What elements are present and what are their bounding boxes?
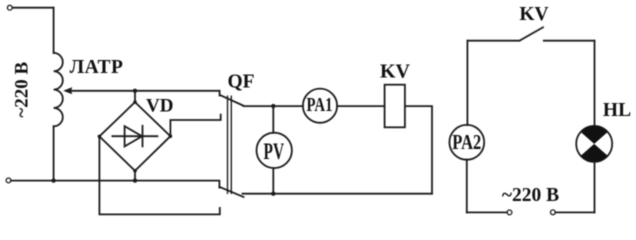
wire PA2 down to bottom — [466, 160, 468, 213]
terminal X2 bottom-left — [6, 178, 11, 183]
svg-text:PV: PV — [264, 139, 285, 164]
diode VD1 inside bridge: anode line — [112, 135, 157, 137]
diode VD1 cathode bar — [142, 126, 144, 147]
terminal X4 — [551, 210, 556, 215]
junction bridge bottom / bottom rail — [133, 178, 137, 182]
junction PV branch bottom — [271, 192, 275, 196]
wire bottom rail to QF lower fixed contact — [11, 181, 220, 188]
contact KV blade — [520, 27, 543, 40]
svg-text:~220 В: ~220 В — [502, 185, 559, 206]
wire bottom right segment — [555, 211, 594, 213]
svg-text:ЛАТР: ЛАТР — [70, 57, 124, 78]
wire top-left horizontal — [12, 7, 53, 9]
wire bottom return to QF pole2 — [243, 193, 433, 195]
wire bridge plus output step — [170, 115, 220, 137]
lamp HL bottom sector — [581, 144, 608, 162]
node bridge left corner — [98, 135, 102, 139]
bridge top stub — [134, 91, 136, 102]
breaker QF linkage bar line 2 — [230, 96, 232, 193]
svg-text:KV: KV — [519, 4, 548, 25]
svg-text:~220 В: ~220 В — [12, 61, 33, 117]
wire QF pole1 out to PA1 — [244, 105, 303, 107]
lamp HL circle — [576, 126, 612, 162]
ammeter PA1 circle — [303, 89, 337, 123]
svg-text:HL: HL — [603, 100, 631, 121]
lamp HL top sector — [581, 126, 608, 144]
wire right vertical down to HL — [594, 41, 596, 126]
wire coil bottom to bottom rail — [53, 126, 55, 180]
wire bottom left segment to terminal — [467, 211, 507, 213]
autotransformer T1 ЛАТР winding — [54, 53, 63, 126]
ammeter PA2 circle — [449, 125, 484, 160]
svg-text:KV: KV — [380, 61, 411, 83]
junction at coil and bottom rail — [51, 178, 55, 182]
wire HL down to bottom — [594, 162, 596, 213]
wire bridge minus output down and right — [99, 136, 219, 214]
wire left vertical down to PA2 — [466, 41, 468, 125]
node bridge top corner — [133, 100, 137, 104]
wire wiper to QF upper fixed contact — [70, 91, 220, 96]
svg-text:QF: QF — [227, 72, 254, 93]
node bridge right corner — [169, 134, 173, 138]
junction wiper wire / bridge top — [133, 89, 137, 93]
wire KV coil out right and down — [405, 106, 432, 194]
breaker QF pole 1 blade — [220, 95, 243, 105]
svg-text:PA1: PA1 — [307, 94, 333, 116]
wire PV branch upper — [272, 106, 274, 133]
terminal X3 — [507, 210, 512, 215]
wire PA1 to KV coil — [337, 105, 385, 107]
wire PV branch lower — [272, 168, 274, 194]
node bridge bottom corner — [133, 169, 137, 173]
breaker QF pole 2 blade — [221, 187, 244, 197]
voltmeter PV circle — [257, 133, 292, 168]
terminal X1 top-left — [7, 5, 12, 10]
wire down to autotransformer — [53, 8, 55, 53]
wire right top right segment — [544, 40, 595, 42]
wiper arrow of ЛАТР — [63, 87, 72, 94]
svg-text:PA2: PA2 — [452, 130, 481, 154]
breaker QF linkage bar line 1 — [227, 96, 229, 193]
diode VD1 triangle — [125, 126, 143, 146]
relay coil KV rectangle — [385, 85, 405, 128]
diode bridge VD outline — [99, 102, 170, 171]
svg-text:VD: VD — [146, 95, 173, 116]
wire right top left segment — [467, 40, 519, 42]
junction PV branch top — [271, 104, 275, 108]
bridge bottom stub — [134, 171, 136, 181]
